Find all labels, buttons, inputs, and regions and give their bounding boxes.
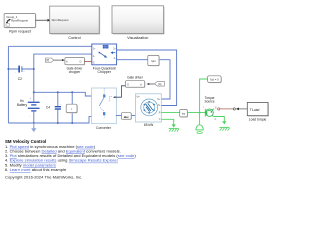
svg-text:Converter: Converter (96, 126, 112, 130)
svg-text:Visualization: Visualization (127, 36, 148, 40)
wire: C2 branch (8, 68, 33, 70)
svg-text:Control: Control (68, 36, 80, 40)
svg-text:C4: C4 (46, 105, 50, 109)
svg-text:Load torque: Load torque (249, 118, 267, 122)
annotation SM Velocity Control (5, 139, 136, 180)
node: shaft junction (199, 112, 201, 114)
From tag [P] (45, 58, 54, 62)
svg-text:r: r (71, 107, 72, 111)
wire: battery positive vertical to chopper 1- (34, 54, 92, 101)
wire: From tag to Gate driver (147, 83, 155, 85)
wire: DC bus positive top (battery loop to chopper 1+) (8, 45, 91, 47)
svg-text:G: G (93, 62, 95, 64)
block Four-Quadrant Chopper (92, 44, 117, 74)
torque source (203, 96, 217, 121)
capacitor C2 (15, 66, 25, 81)
svg-text:C: C (215, 119, 217, 121)
wire: converter output to machine fd (116, 114, 136, 116)
svg-text:G: G (127, 82, 129, 86)
svg-text:+: + (60, 103, 62, 105)
node: C2 left junction (7, 68, 9, 70)
solver configuration f(x)=0 (208, 76, 222, 83)
svg-text:Gate driver: Gate driver (127, 75, 144, 79)
svg-text:-: - (15, 72, 16, 74)
node: r bottom junction (71, 122, 73, 124)
wire: TLoad physical signal to torque source S (218, 108, 248, 111)
node: battery top bus junction (33, 91, 35, 93)
svg-text:+: + (23, 71, 25, 73)
svg-text:-: - (30, 115, 31, 118)
block Gate driver (126, 75, 146, 88)
svg-text:1-: 1- (93, 56, 95, 58)
svg-text:Rpm request: Rpm request (9, 30, 32, 34)
node: C4 top junction (57, 91, 59, 93)
subsystem Control (50, 6, 100, 40)
svg-text:Source: Source (204, 100, 214, 104)
capacitor C4 (46, 103, 62, 114)
wire: machine C to rotational ground (161, 119, 176, 127)
svg-text:[P]: [P] (46, 60, 49, 62)
svg-text:65 kW: 65 kW (144, 123, 154, 127)
synchronous machine SM 65 kW (136, 94, 162, 127)
svg-text:[G]: [G] (158, 84, 161, 86)
svg-text:N-: N- (158, 105, 161, 107)
wire: bottom negative bus (8, 117, 91, 123)
svg-text:Battery: Battery (17, 103, 28, 107)
wire: converter G signal to Gate driver (113, 86, 126, 99)
svg-text:C2: C2 (18, 77, 22, 81)
wire: C4 branch vertical (57, 92, 59, 123)
ground: rotational reference at torque source (219, 127, 229, 130)
node: battery bottom bus junction (33, 122, 35, 124)
mechanical rotational reference (dome) (195, 113, 203, 134)
node: r top junction (71, 91, 73, 93)
node: C2 right junction (33, 68, 35, 70)
ground arrow below battery (31, 123, 36, 132)
From tag G (mirrored) (155, 81, 165, 86)
svg-text:2-: 2- (114, 58, 116, 60)
wire: torque source C to rotational ground (214, 117, 227, 125)
wire: chopper 2- to machine N+ (117, 60, 170, 99)
wire: Rpm request to Control (36, 19, 51, 22)
svg-text:S: S (215, 107, 217, 109)
svg-text:6. Learn more about this examp: 6. Learn more about this example (5, 167, 67, 172)
signal source Rpm request (4, 14, 36, 34)
svg-text:G: G (80, 60, 82, 64)
svg-text:chopper: chopper (69, 70, 81, 74)
svg-text:RpmRequest: RpmRequest (11, 19, 28, 23)
wire: From tag to Gate driver chopper (54, 59, 65, 61)
battery Hv Battery (17, 97, 40, 123)
constant TLoad (247, 102, 269, 121)
wire: shaft to solver configuration (200, 79, 208, 113)
svg-text:TLoad: TLoad (250, 108, 260, 112)
svg-text:Copyright 2016-2024 The MathWo: Copyright 2016-2024 The MathWorks, Inc. (5, 174, 82, 179)
block Converter (variant subsystem) (92, 88, 117, 130)
probe rpm (148, 55, 160, 66)
svg-text:T: T (203, 107, 205, 109)
resistor block r (66, 104, 78, 113)
ground: rotational reference under machine (169, 128, 179, 131)
svg-text:RpmRequest: RpmRequest (52, 18, 69, 22)
svg-text:f(x) = 0: f(x) = 0 (210, 78, 219, 82)
wire: chopper 2+ to machine N- (117, 50, 177, 106)
wire: machine R shaft to torque source (161, 112, 205, 114)
svg-text:abc: abc (124, 115, 129, 119)
node: C4 bottom junction (57, 122, 59, 124)
block Gate driver chopper (65, 58, 85, 75)
wire: resistor r branch vertical (71, 92, 73, 123)
wire: left vertical branch of battery loop (7, 46, 9, 123)
svg-text:trq: trq (182, 112, 186, 116)
svg-text:Chopper: Chopper (97, 70, 111, 74)
svg-text:-: - (60, 113, 61, 115)
probe trq (180, 110, 188, 118)
wire: gate drive PS to chopper G (84, 61, 91, 63)
svg-text:rpm: rpm (151, 59, 157, 63)
probe abc (121, 113, 131, 120)
wire: DC bus to converter top input (34, 92, 92, 96)
subsystem Visualization (112, 6, 165, 40)
svg-text:+: + (30, 97, 32, 100)
